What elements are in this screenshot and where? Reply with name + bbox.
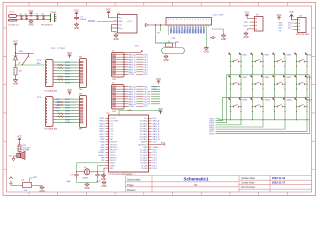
wire [77, 163, 106, 172]
ground crystal [84, 183, 90, 190]
svg-text:COM: COM [129, 106, 134, 108]
capacitor C7 [74, 16, 79, 21]
junction [306, 106, 307, 107]
resistor network U2 [58, 64, 64, 81]
svg-text:COM: COM [129, 74, 134, 76]
VCC flag U1 [158, 108, 163, 114]
connector TH2 [80, 96, 87, 128]
junction [37, 19, 38, 20]
ground LEDK [204, 46, 210, 53]
junction [230, 61, 231, 62]
MCU U1 pins right [149, 118, 152, 168]
junction [296, 119, 297, 120]
junction [274, 74, 275, 75]
junction [296, 88, 297, 89]
junction [255, 25, 257, 27]
wire [253, 99, 264, 120]
svg-text:2022-11-18: 2022-11-18 [272, 176, 286, 180]
junction [230, 119, 231, 120]
svg-text:VCC: VCC [17, 136, 22, 139]
net label DB1 (rotated) [187, 26, 189, 33]
net label RS (rotated) [176, 26, 178, 33]
resistor R2 [14, 68, 17, 76]
wire [231, 99, 242, 120]
VCC flag U5 [106, 9, 111, 15]
net label VO (rotated) [173, 26, 175, 33]
junction [296, 106, 297, 107]
switch SW4 [295, 53, 308, 63]
wire U5 gnd [112, 25, 114, 32]
junction [262, 106, 263, 107]
svg-text:DC005 1.0: DC005 1.0 [9, 25, 20, 27]
svg-text:XTAL2: XTAL2 [110, 162, 115, 165]
svg-text:VCC: VCC [153, 142, 158, 144]
junction [255, 18, 257, 20]
wire [17, 15, 50, 17]
svg-text:C3: C3 [71, 175, 73, 177]
svg-text:GND: GND [28, 24, 34, 27]
wires U2 to header [56, 62, 77, 82]
junction [240, 83, 241, 84]
net label DB5 (rotated) [198, 26, 200, 33]
svg-text:Part Number: Part Number [241, 186, 255, 189]
junction [230, 83, 231, 84]
svg-text:P2.3/A11: P2.3/A11 [140, 159, 147, 162]
switch SW9 [229, 98, 242, 108]
svg-text:VCC: VCC [74, 10, 79, 13]
module U5 pins [114, 18, 118, 29]
junction [262, 97, 263, 98]
wire [223, 96, 310, 98]
junction [255, 21, 257, 23]
junction [296, 66, 297, 67]
junction [252, 83, 253, 84]
junction [306, 66, 307, 67]
switch SW11 [273, 98, 286, 108]
wire [16, 64, 45, 66]
wire [167, 25, 169, 35]
junction [148, 103, 149, 104]
svg-text:VCC: VCC [144, 106, 149, 108]
junction [252, 88, 253, 89]
VCC flag power rail [28, 10, 33, 16]
connector U4 ESP-01S [298, 18, 307, 33]
junction [252, 119, 253, 120]
svg-text:P0.2/AD2: P0.2/AD2 [140, 125, 148, 128]
svg-text:VCC: VCC [156, 78, 161, 81]
svg-text:VCC: VCC [118, 17, 123, 19]
wire [275, 77, 286, 98]
switch SW7 [273, 75, 286, 85]
junction [148, 98, 149, 99]
svg-text:P2.6/A14: P2.6/A14 [140, 151, 147, 154]
wire [292, 20, 295, 30]
junction [262, 61, 263, 62]
wire [19, 142, 21, 146]
svg-text:VO: VO [157, 33, 160, 35]
junction [274, 83, 275, 84]
title block table [126, 176, 312, 193]
wire [112, 32, 117, 34]
svg-text:GND: GND [118, 21, 123, 23]
svg-text:VCC: VCC [28, 10, 33, 13]
wire [119, 111, 161, 116]
switch SW10 [251, 98, 264, 108]
junction [274, 106, 275, 107]
svg-text:GND: GND [101, 185, 107, 188]
net label DB6 (rotated) [200, 26, 202, 33]
svg-text:12MHz: 12MHz [82, 178, 88, 180]
svg-text:GND: GND [243, 36, 249, 39]
svg-text:VCC: VCC [106, 9, 111, 12]
junction [240, 119, 241, 120]
junction [262, 119, 263, 120]
svg-text:P0.6/AD6: P0.6/AD6 [140, 135, 148, 138]
svg-text:ALE/PROG: ALE/PROG [138, 143, 148, 146]
connector TH1 [80, 59, 87, 88]
switch SW6 [251, 75, 264, 85]
capacitor C6 [25, 16, 28, 20]
junction [37, 15, 38, 16]
junction [284, 88, 285, 89]
svg-text:10k: 10k [24, 190, 27, 192]
junction [284, 119, 285, 120]
junction [284, 106, 285, 107]
wire [216, 75, 310, 134]
wire [17, 18, 50, 20]
svg-text:P2.1/A9: P2.1/A9 [141, 164, 147, 167]
sheet inner border frame [7, 6, 312, 192]
svg-text:DC1: DC1 [10, 12, 15, 14]
svg-text:P2.7/A15: P2.7/A15 [140, 149, 147, 152]
capacitor C3 [74, 172, 79, 179]
wires J2 mid [136, 87, 143, 107]
wire [98, 165, 106, 171]
svg-text:RXD: RXD [244, 25, 249, 27]
junction [148, 96, 149, 97]
junction [298, 19, 300, 21]
wires J2 extended [151, 87, 160, 104]
junction [306, 74, 307, 75]
net label DB0 (rotated) [184, 26, 186, 33]
junction [284, 83, 285, 84]
svg-text:P2.2/A10: P2.2/A10 [140, 162, 147, 165]
svg-text:VCC: VCC [144, 74, 149, 76]
net label DB4 (rotated) [195, 26, 197, 33]
svg-text:GND: GND [221, 38, 227, 41]
junction [274, 111, 275, 112]
svg-text:BUZZER: BUZZER [23, 150, 31, 152]
IC U3 segment driver [46, 97, 54, 127]
wire VO drop 1 [156, 25, 170, 43]
junction [252, 106, 253, 107]
netflag arrow pin16 [210, 37, 215, 39]
ground crystal right [101, 174, 107, 181]
wire [104, 168, 106, 178]
svg-text:COM: COM [65, 122, 70, 124]
capacitor C2 [95, 172, 100, 179]
junction [26, 19, 27, 20]
svg-text:SW11: SW11 [287, 100, 293, 102]
junction [296, 61, 297, 62]
wire key vcc [15, 47, 17, 55]
junction [252, 66, 253, 67]
svg-text:Create Date: Create Date [241, 182, 255, 185]
svg-text:SONIC: SONIC [88, 21, 96, 23]
junction [296, 74, 297, 75]
junction [22, 64, 23, 65]
capacitor C5 [20, 16, 23, 20]
IC U2 segment driver [46, 60, 54, 87]
border zone tick marks [3, 3, 316, 196]
junction [274, 66, 275, 67]
svg-text:GND: GND [74, 27, 80, 30]
wire P1 rx tx [250, 22, 252, 25]
switch SW1 [229, 53, 242, 63]
ground reset [39, 186, 45, 193]
junction [306, 83, 307, 84]
module U5 ultrasonic sensor [118, 15, 138, 34]
junction [296, 83, 297, 84]
svg-text:GND: GND [101, 178, 107, 181]
wire header gnd [212, 29, 224, 34]
wire reset right [32, 185, 43, 187]
junction [262, 74, 263, 75]
wire keypad staircase column drops [216, 120, 308, 132]
svg-text:KEY: KEY [61, 48, 66, 50]
svg-text:VCC: VCC [9, 183, 14, 185]
svg-text:Update Date: Update Date [241, 177, 256, 180]
junction [230, 66, 231, 67]
IC U3 pin marks [45, 98, 47, 123]
wire [156, 43, 176, 48]
svg-text:SW10: SW10 [265, 100, 271, 102]
net label DB2 (rotated) [189, 26, 191, 33]
wire [297, 54, 308, 75]
wire [58, 47, 61, 49]
connector P1 4-pin [255, 17, 264, 32]
junction [148, 91, 149, 92]
wire [29, 53, 35, 55]
ground P1 [243, 32, 249, 39]
wire [297, 77, 308, 98]
junction [306, 97, 307, 98]
svg-text:RST: RST [33, 177, 38, 179]
junction [30, 15, 31, 16]
wire VO to header [149, 24, 167, 26]
svg-text:VCC: VCC [13, 41, 18, 44]
ground LCD right [221, 34, 227, 41]
junction [296, 97, 297, 98]
ground power input [28, 19, 34, 26]
junction [298, 22, 300, 24]
svg-text:GND: GND [113, 38, 119, 41]
junction [306, 61, 307, 62]
junction [274, 61, 275, 62]
svg-text:PW-2E6017: PW-2E6017 [41, 25, 54, 27]
svg-text:RW: RW [179, 30, 181, 33]
svg-text:GND: GND [13, 82, 19, 85]
junction [255, 28, 257, 30]
svg-text:SEG_A: SEG_A [153, 120, 160, 123]
switch SW8 [295, 75, 308, 85]
svg-text:P0.5/AD5: P0.5/AD5 [140, 133, 148, 136]
svg-text:VCC: VCC [158, 108, 163, 111]
junction [21, 15, 22, 16]
junction [240, 61, 241, 62]
wire [13, 156, 16, 158]
capacitor C8 [42, 16, 45, 20]
junction [148, 101, 149, 102]
VCC flag J2 [156, 78, 161, 84]
junction [274, 119, 275, 120]
svg-text:P2.4/A12: P2.4/A12 [140, 156, 147, 159]
svg-text:Schematic: Schematic [127, 177, 141, 181]
junction [97, 171, 98, 172]
svg-text:KEY8: KEY8 [210, 133, 215, 135]
svg-text:ICT04A4F-A01: ICT04A4F-A01 [44, 128, 58, 131]
ground key circuit [13, 78, 19, 85]
resistor R9 reset [23, 183, 32, 188]
svg-text:LCD 1*16P: LCD 1*16P [213, 15, 224, 17]
junction [284, 66, 285, 67]
svg-text:P1: P1 [194, 183, 198, 187]
svg-text:R9: R9 [22, 180, 24, 182]
junction [262, 111, 263, 112]
sheet outer border frame [3, 3, 316, 196]
junction [306, 111, 307, 112]
svg-text:100nF: 100nF [80, 19, 87, 21]
junction [240, 88, 241, 89]
switch SW2 [251, 53, 264, 63]
junction [252, 74, 253, 75]
wires J1 right [124, 55, 129, 75]
junction [230, 106, 231, 107]
wire [292, 19, 298, 21]
svg-text:P0.0/AD0: P0.0/AD0 [140, 120, 148, 123]
svg-text:KEY: KEY [37, 63, 42, 65]
wire [77, 179, 98, 183]
junction [284, 97, 285, 98]
ground U5 [113, 34, 119, 41]
svg-text:VCC: VCC [67, 52, 72, 55]
junction [15, 52, 16, 53]
junction [15, 64, 16, 65]
wire [124, 52, 141, 53]
wire crystal leads [77, 171, 98, 173]
junction [306, 88, 307, 89]
svg-text:P0.4/AD4: P0.4/AD4 [140, 130, 148, 133]
svg-text:SW12: SW12 [307, 100, 313, 102]
svg-text:2022-11-17: 2022-11-17 [272, 181, 286, 185]
wire [253, 77, 264, 98]
IC U2 pin marks [45, 61, 47, 83]
wire LCD pin drops [168, 25, 209, 27]
svg-text:GND: GND [204, 50, 210, 53]
svg-text:GND: GND [128, 110, 133, 112]
wire [219, 119, 310, 121]
wire [19, 152, 21, 154]
junction [274, 97, 275, 98]
junction [262, 83, 263, 84]
svg-text:GND: GND [289, 12, 294, 14]
wire [253, 54, 264, 75]
svg-text:P0.3/AD3: P0.3/AD3 [140, 128, 148, 131]
diode DW1 [14, 54, 18, 64]
svg-text:VCC: VCC [67, 89, 72, 92]
junction [155, 24, 156, 25]
VCC flag U3 [67, 89, 72, 95]
switch S1 [16, 54, 29, 65]
junction [298, 29, 300, 31]
ground RP1 [163, 55, 169, 62]
junction [274, 88, 275, 89]
svg-text:GND: GND [163, 59, 169, 62]
wires J2 right [124, 87, 129, 107]
buzzer LS1 speaker [17, 151, 25, 159]
net label DB3 (rotated) [192, 26, 194, 33]
switch SW3 [273, 53, 286, 63]
VCC flag buzzer [17, 136, 22, 142]
svg-text:P2.5/A13: P2.5/A13 [140, 154, 147, 157]
svg-text:STC89C52RC-40I-PDIP40: STC89C52RC-40I-PDIP40 [109, 174, 134, 176]
wire [297, 99, 308, 120]
svg-text:Schematic1: Schematic1 [183, 177, 209, 182]
junction [240, 66, 241, 67]
wire SONIC net [97, 21, 114, 23]
VCC flag C7 [74, 10, 79, 16]
junction [26, 15, 27, 16]
MCU U1 pins left [106, 118, 109, 168]
junction [43, 15, 44, 16]
junction [284, 111, 285, 112]
VCC flag reset [9, 177, 13, 186]
wire [98, 171, 104, 173]
wire [275, 54, 286, 75]
wire VO drop 2 [160, 25, 162, 31]
junction [160, 24, 161, 25]
svg-text:VO: VO [173, 30, 175, 33]
VCC flag ESP [276, 14, 281, 20]
junction [296, 111, 297, 112]
svg-text:VDD: VDD [171, 28, 173, 33]
wire reset left [11, 185, 23, 187]
ground C7 [74, 23, 80, 30]
VCC flag key circuit [13, 41, 18, 47]
svg-text:TXD: TXD [244, 22, 249, 24]
svg-text:P3.1: P3.1 [153, 89, 157, 91]
wire RP1 loop [162, 48, 185, 54]
svg-text:XTAL1: XTAL1 [110, 164, 115, 167]
junction [262, 66, 263, 67]
wire [231, 54, 242, 75]
ground U1 [101, 181, 107, 188]
junction [252, 111, 253, 112]
junction [306, 119, 307, 120]
resistor network U3 [58, 101, 64, 118]
junction [284, 74, 285, 75]
junction [76, 171, 77, 172]
junction [262, 88, 263, 89]
wire [248, 18, 252, 31]
wire [227, 74, 310, 76]
svg-text:EA/VPP: EA/VPP [141, 141, 148, 144]
svg-text:ICT04A4F-A01: ICT04A4F-A01 [44, 90, 58, 93]
svg-text:VCC: VCC [276, 14, 281, 17]
svg-text:Trig: Trig [118, 24, 121, 26]
junction [230, 97, 231, 98]
junction [240, 97, 241, 98]
